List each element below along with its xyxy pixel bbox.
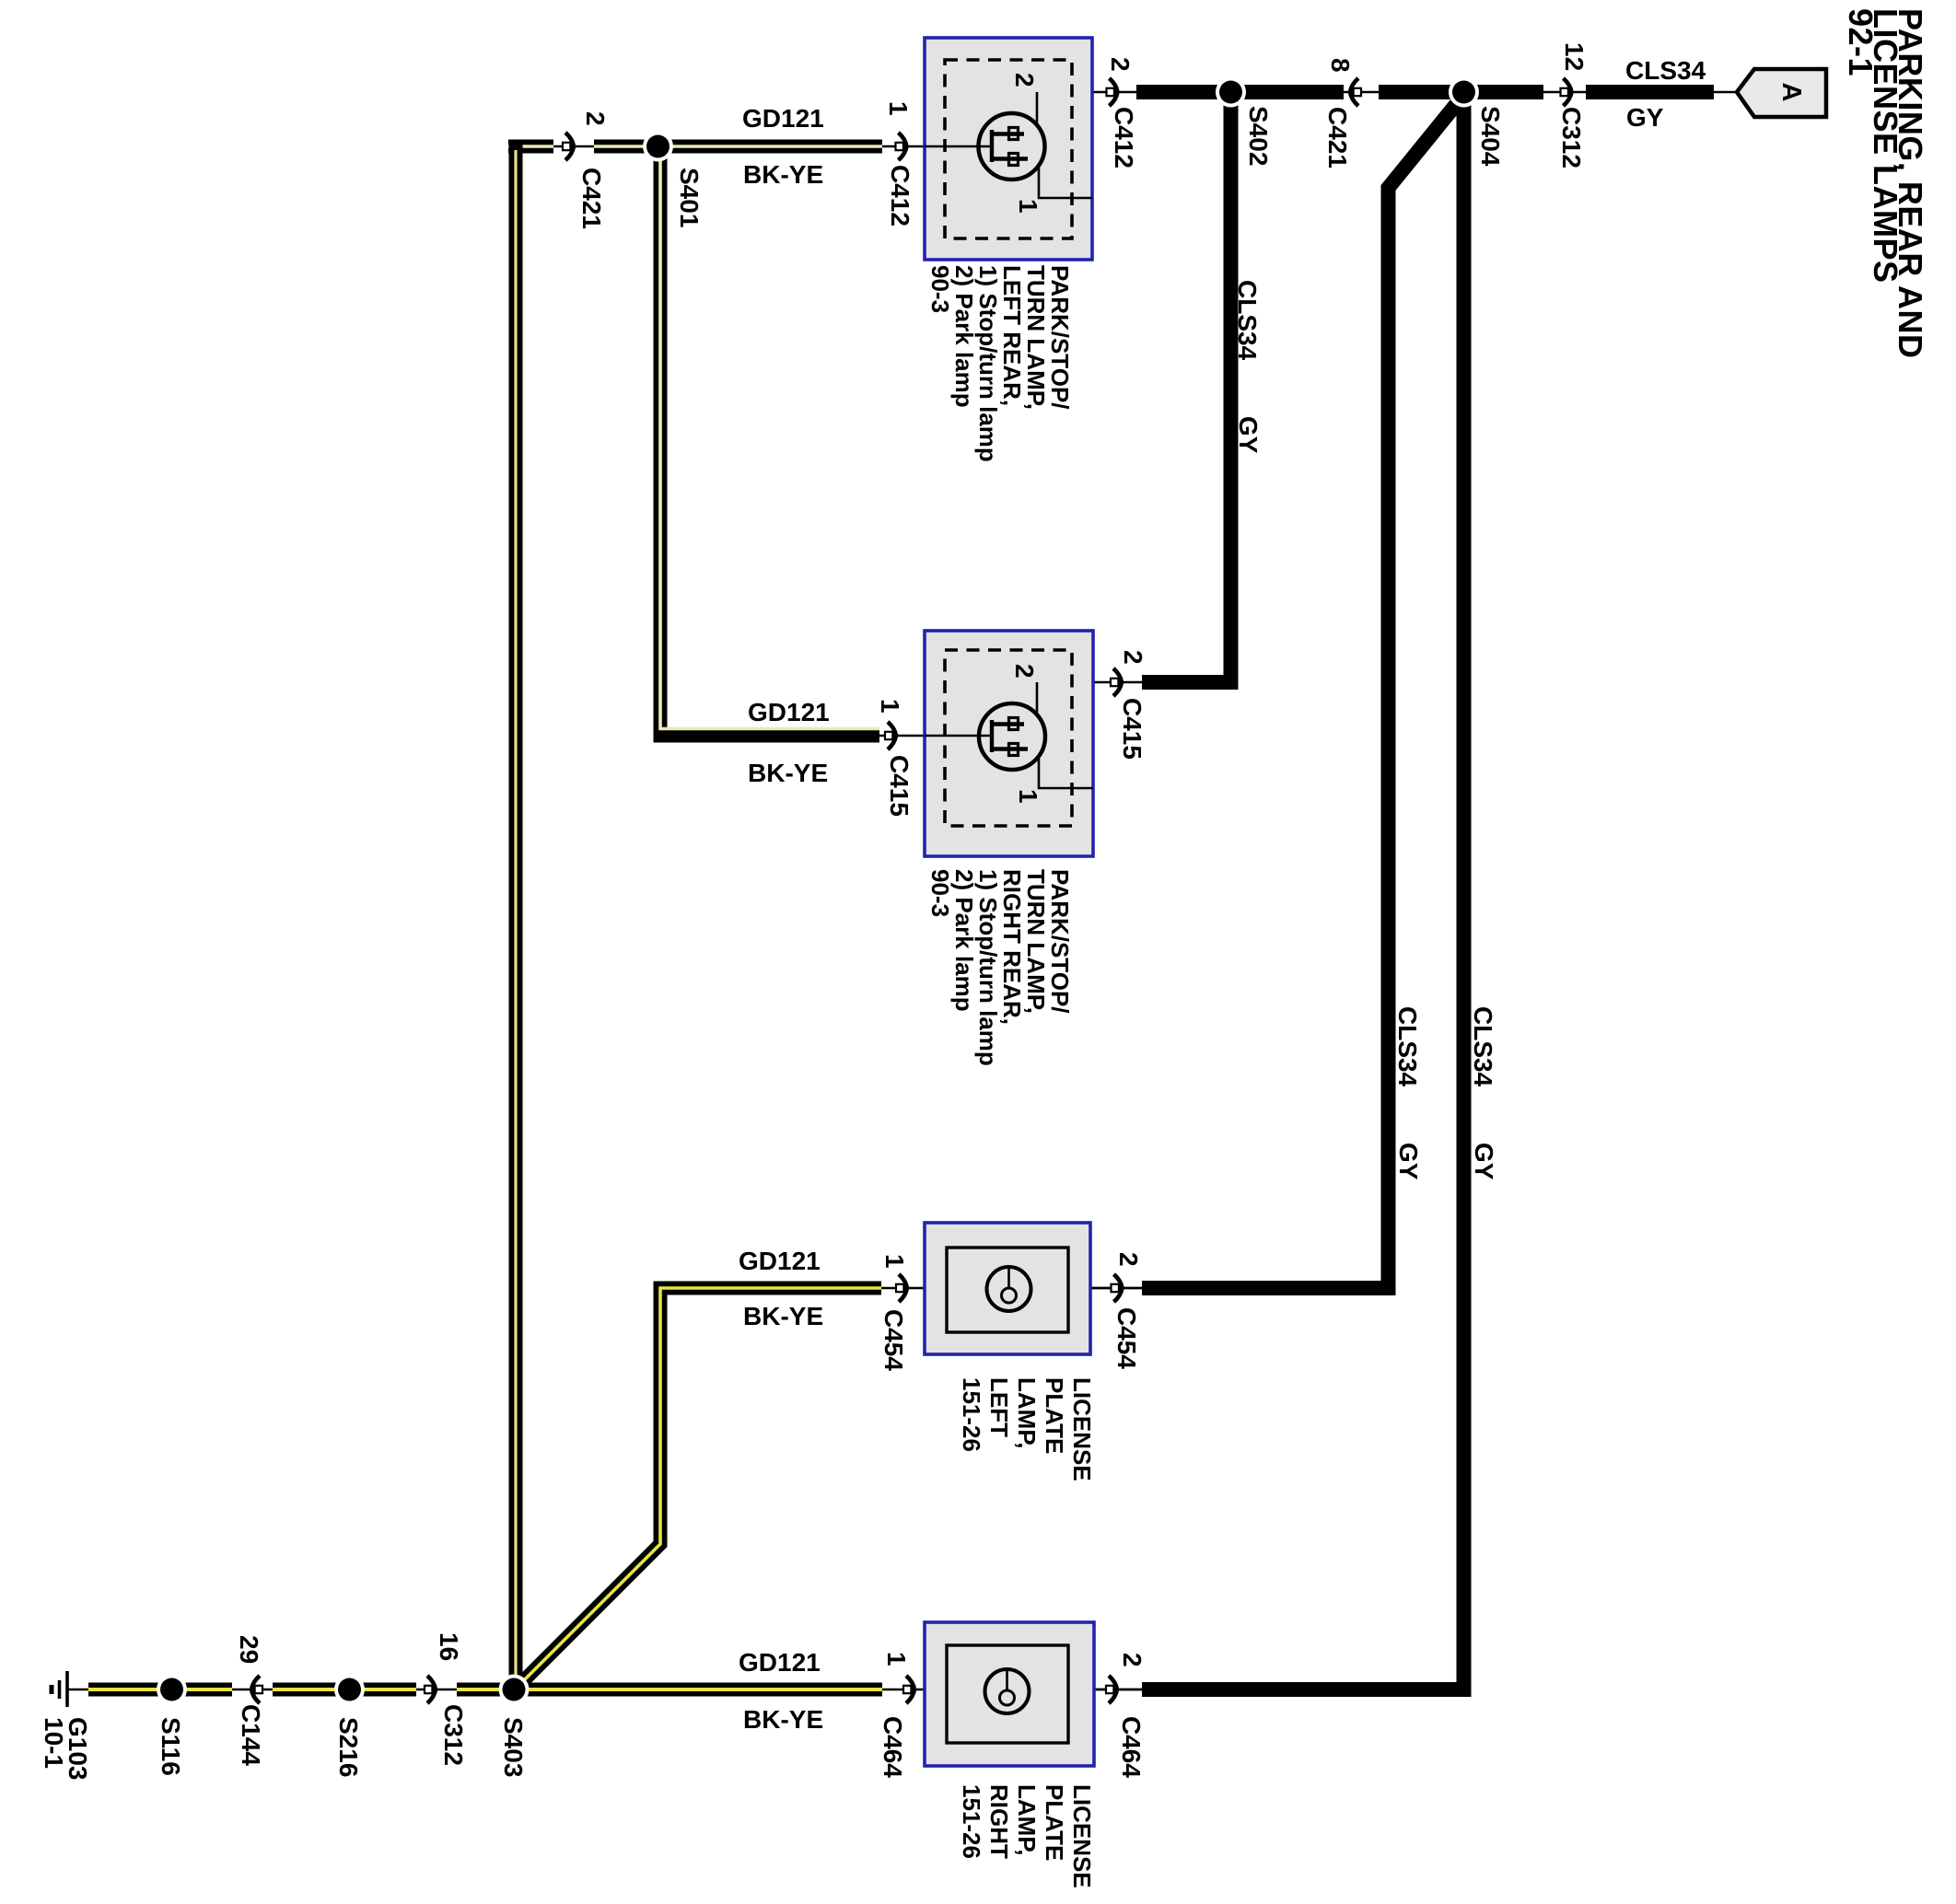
wire: thin lead through C412 pin2 xyxy=(1037,91,1136,94)
svg-text:2: 2 xyxy=(1118,1653,1147,1667)
connector C412 pin1 arrow xyxy=(896,133,907,160)
wire: thin lead through C454 pin1 xyxy=(881,1287,1142,1290)
wire: BK-YE ground chain G103 to C144 xyxy=(88,1683,232,1697)
svg-text:12: 12 xyxy=(1560,42,1589,71)
svg-text:GD121: GD121 xyxy=(739,1648,821,1677)
wire: main bus segment C421 to S404 xyxy=(1379,85,1458,99)
connector C421-8 arrow xyxy=(1350,78,1361,106)
svg-text:2: 2 xyxy=(1114,1252,1143,1267)
connector C415 pin2 arrow xyxy=(1111,668,1122,696)
wire: BK-YE chain C144 to C312 xyxy=(273,1683,416,1697)
connector C312-16 arrow xyxy=(425,1676,436,1703)
wire: main bus segment C312 to connector A xyxy=(1586,85,1714,99)
svg-text:C144: C144 xyxy=(237,1704,265,1766)
svg-text:BK-YE: BK-YE xyxy=(743,1705,823,1734)
svg-text:2: 2 xyxy=(1010,73,1039,87)
wire: thin lead to pennant A xyxy=(1714,91,1737,94)
connector C464 pin1 arrow xyxy=(903,1676,914,1703)
lamp PARK/STOP/TURN RIGHT REAR box xyxy=(925,631,1093,856)
svg-text:16: 16 xyxy=(435,1632,463,1661)
wire: thin lead through C421-2 xyxy=(553,145,594,148)
splice S402 xyxy=(1216,77,1246,108)
svg-text:GY: GY xyxy=(1234,416,1263,454)
svg-text:S116: S116 xyxy=(157,1717,185,1776)
wire: thin lead through C464 pin1 xyxy=(882,1689,1142,1691)
wire: thin lead through C312-16 xyxy=(416,1689,457,1691)
svg-text:A: A xyxy=(1776,83,1806,102)
ground G103 symbol xyxy=(52,1671,88,1707)
connector C454 pin1 arrow xyxy=(896,1274,907,1302)
connector C464 pin2 arrow xyxy=(1106,1676,1117,1703)
wire: thin lead through C415 pin1 into lamp xyxy=(879,735,992,737)
svg-text:1: 1 xyxy=(1014,789,1042,804)
svg-text:S216: S216 xyxy=(334,1717,363,1777)
svg-text:2: 2 xyxy=(1010,664,1039,679)
svg-text:C415: C415 xyxy=(885,755,914,817)
svg-text:C464: C464 xyxy=(1117,1716,1146,1778)
svg-text:BK-YE: BK-YE xyxy=(743,1302,823,1330)
svg-text:1: 1 xyxy=(884,101,913,116)
wire: thin lead through C464 pin2 xyxy=(1094,1689,1142,1691)
svg-text:GD121: GD121 xyxy=(742,104,824,133)
svg-text:S404: S404 xyxy=(1476,106,1505,167)
wire: thin lead through C412 pin1 into lamp xyxy=(882,145,992,148)
svg-text:GD121: GD121 xyxy=(748,698,830,726)
svg-text:CLS34: CLS34 xyxy=(1469,1006,1497,1087)
svg-text:C421: C421 xyxy=(577,168,606,229)
wire: BK-YE left vertical from corner to S403 xyxy=(509,140,523,1689)
wire: BK-YE vertical S401 down to C415 pin1 xyxy=(660,146,879,736)
splice S116 xyxy=(157,1675,187,1705)
lamp LICENSE PLATE LEFT box xyxy=(925,1223,1090,1354)
svg-text:C454: C454 xyxy=(1112,1307,1141,1369)
bulb symbol license right xyxy=(985,1669,1030,1713)
wire: BK-YE chain C312 to S403 to C464 pin1 xyxy=(457,1683,882,1697)
splice S401 xyxy=(643,132,673,162)
svg-text:GY: GY xyxy=(1470,1143,1498,1180)
wire: branch S404 jog down to license left C454 pin2 xyxy=(1142,95,1464,1288)
bulb symbol license left xyxy=(987,1267,1031,1311)
svg-text:CLS34: CLS34 xyxy=(1625,56,1706,85)
svg-text:S403: S403 xyxy=(499,1717,528,1777)
wire: main bus segment S402 to C421 xyxy=(1237,85,1344,99)
wire: GD121 BK-YE from corner through C421-2 S401 to C412 pin1 xyxy=(508,140,553,154)
connector C412 pin2 arrow xyxy=(1107,78,1118,106)
connector C454 pin2 arrow xyxy=(1112,1274,1123,1302)
connector A pennant xyxy=(1737,69,1826,117)
wire: main bus CLS34 segment C412 to S402 xyxy=(1136,85,1225,99)
wire: thin lead through C454 pin2 xyxy=(1090,1287,1142,1290)
wire: thin lead through C144 xyxy=(232,1689,273,1691)
bulb symbol lamp right rear xyxy=(925,682,1093,788)
svg-text:C412: C412 xyxy=(1110,107,1138,168)
svg-text:GY: GY xyxy=(1394,1143,1423,1180)
svg-text:CLS34: CLS34 xyxy=(1233,280,1262,361)
splice S216 xyxy=(334,1675,365,1705)
connector C144 arrow xyxy=(251,1676,262,1703)
svg-text:1: 1 xyxy=(882,1652,911,1666)
svg-text:GY: GY xyxy=(1626,103,1664,132)
svg-text:2: 2 xyxy=(1106,57,1135,72)
svg-text:8: 8 xyxy=(1326,58,1355,73)
connector C421-2 arrow xyxy=(563,133,574,160)
svg-text:2: 2 xyxy=(581,111,610,126)
wire: thin lead through C421 xyxy=(1344,91,1379,94)
wire: branch S402 down and left to C415 pin2 xyxy=(1142,92,1231,682)
wire: main bus segment S404 to C312 xyxy=(1470,85,1543,99)
wire: thin lead through C415 pin2 xyxy=(1093,681,1142,684)
wire: branch S404 down to license right C464 pin2 xyxy=(1142,92,1464,1689)
svg-text:S401: S401 xyxy=(675,168,704,227)
lamp LICENSE PLATE RIGHT box xyxy=(925,1622,1094,1766)
svg-text:C415: C415 xyxy=(1118,698,1147,760)
svg-text:1: 1 xyxy=(880,1254,909,1269)
svg-text:C312: C312 xyxy=(1557,107,1586,168)
svg-text:BK-YE: BK-YE xyxy=(748,759,828,787)
connector C415 pin1 arrow xyxy=(885,722,896,749)
bulb symbol lamp left rear xyxy=(925,92,1092,198)
wire: BK-YE diagonal from S403 up to license left C454 pin1 xyxy=(516,1288,881,1689)
splice S404 xyxy=(1449,77,1479,108)
svg-text:C464: C464 xyxy=(879,1716,907,1778)
connector C312-12 arrow xyxy=(1561,78,1572,106)
splice S403 xyxy=(499,1675,530,1705)
svg-text:C454: C454 xyxy=(879,1309,908,1371)
svg-text:C412: C412 xyxy=(886,165,914,226)
svg-text:S402: S402 xyxy=(1244,106,1273,166)
svg-text:2: 2 xyxy=(1119,650,1147,665)
svg-text:CLS34: CLS34 xyxy=(1393,1006,1422,1087)
svg-text:1: 1 xyxy=(876,699,904,714)
svg-text:C312: C312 xyxy=(439,1704,468,1766)
lamp PARK/STOP/TURN LEFT REAR box xyxy=(925,38,1092,260)
svg-text:1: 1 xyxy=(1014,199,1042,214)
svg-text:GD121: GD121 xyxy=(739,1247,821,1275)
wire: thin lead through C312 xyxy=(1543,91,1586,94)
svg-text:29: 29 xyxy=(235,1635,263,1664)
svg-text:BK-YE: BK-YE xyxy=(743,160,823,189)
svg-text:C421: C421 xyxy=(1323,107,1352,168)
